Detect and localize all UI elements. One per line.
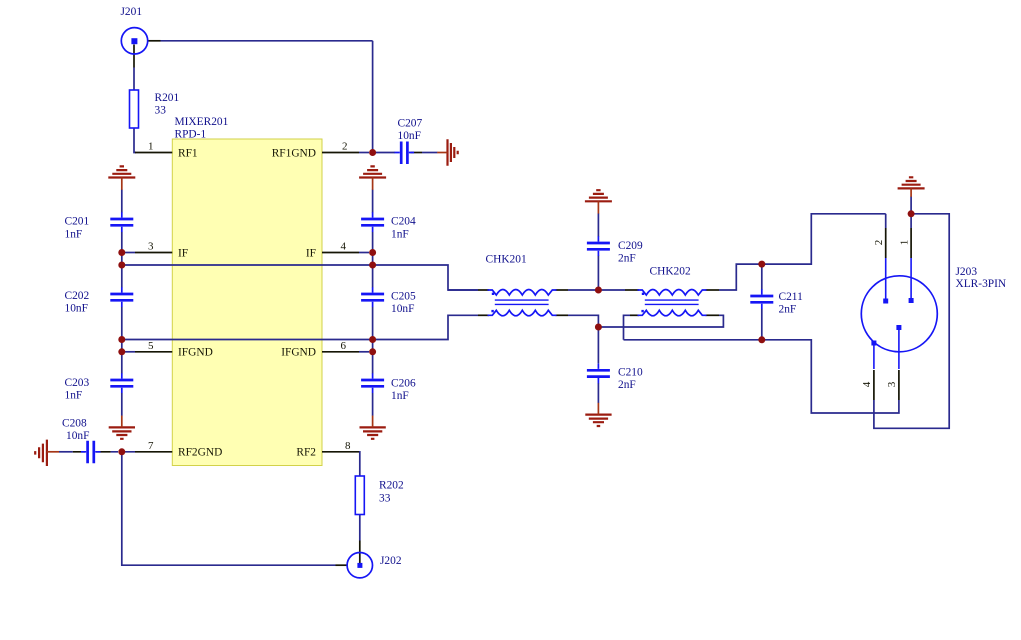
wire C211 bottom lead — [761, 309, 763, 340]
pin 5 of MIXER201 — [135, 351, 172, 353]
svg-text:10nF: 10nF — [66, 430, 89, 442]
wire top corner down to pin2 node — [372, 41, 374, 150]
ground below C206 — [360, 427, 386, 438]
junction node C211 bottom — [758, 336, 765, 343]
junction node pin7 — [118, 448, 125, 455]
ground above XLR pin1 — [898, 177, 925, 188]
junction node IF bus right — [369, 262, 376, 269]
pin segment CHK201 top right — [556, 289, 569, 291]
wire CHK202 top right up to C211 top run — [719, 214, 886, 290]
capacitor C203 — [110, 380, 133, 386]
svg-text:IFGND: IFGND — [178, 347, 213, 359]
junction node IFGND bus left — [118, 336, 125, 343]
pad XLR pin4 — [871, 341, 876, 346]
svg-text:MIXER201: MIXER201 — [175, 116, 229, 128]
pin stub J201 right — [147, 40, 160, 42]
svg-text:RF1: RF1 — [178, 147, 198, 159]
svg-text:RF2GND: RF2GND — [178, 447, 222, 459]
svg-text:1: 1 — [148, 140, 154, 152]
svg-text:1nF: 1nF — [65, 389, 83, 401]
wire pin4 segment — [359, 252, 369, 254]
wire C209 upper lead — [597, 213, 599, 236]
pin 1 of MIXER201 — [135, 152, 172, 154]
wire right chain C204 to C205 — [372, 232, 374, 288]
pin 3 of MIXER201 — [135, 252, 172, 254]
resistor R201 — [130, 90, 139, 128]
wire left chain C203 to bottom ground — [121, 393, 123, 416]
pin segment CHK202 bottom right — [706, 314, 720, 316]
pin segment C207 right — [410, 152, 422, 154]
svg-text:2nF: 2nF — [618, 379, 636, 391]
junction node C209 — [595, 287, 602, 294]
wire CHK201 bottom right to C210 node — [568, 315, 598, 327]
svg-text:7: 7 — [148, 440, 154, 452]
wire CHK202 bottom left to bottom bus — [624, 315, 631, 340]
wire J201 to top corner — [161, 40, 373, 42]
pin segment CHK201 bottom right — [556, 314, 569, 316]
pin stub J202 top — [359, 541, 361, 564]
svg-text:1nF: 1nF — [65, 228, 83, 240]
capacitor C202 — [110, 294, 133, 300]
svg-text:J203: J203 — [956, 266, 978, 278]
wire C210 to bottom ground stem — [597, 383, 599, 403]
svg-text:33: 33 — [155, 105, 167, 117]
wire C207 to ground stem — [422, 152, 437, 154]
capacitor C211 — [750, 296, 773, 302]
svg-text:RPD-1: RPD-1 — [175, 129, 207, 141]
choke CHK202 — [638, 290, 707, 316]
svg-text:5: 5 — [148, 340, 154, 352]
junction node pin4 — [369, 249, 376, 256]
svg-text:IFGND: IFGND — [281, 347, 316, 359]
pin line XLR pin3 inner — [898, 330, 900, 369]
wire IFGND bus from left node across to CHK201 bottom — [122, 315, 478, 339]
wire gnd to XLR pin1 node — [910, 197, 912, 212]
wire left chain C202 to C203 — [121, 307, 123, 374]
pin stub J201 bottom — [133, 45, 135, 68]
wire CHK201 top right to C209 node — [568, 289, 598, 291]
pin segment XLR pin1 — [910, 228, 912, 258]
wire XLR pin1 node right loop down to pin4 — [874, 214, 949, 428]
wire pin3 stub from node — [122, 252, 135, 254]
wire R202 to J202 — [359, 515, 361, 541]
wire pin2 segment — [359, 152, 369, 154]
resistor R202 — [355, 476, 364, 515]
ground below C210 — [585, 415, 611, 426]
svg-text:3: 3 — [886, 381, 898, 387]
svg-text:C207: C207 — [398, 117, 423, 129]
wire C209 lower lead to node — [597, 256, 599, 288]
pin segment CHK202 top right — [706, 289, 720, 291]
svg-text:1nF: 1nF — [391, 390, 409, 402]
svg-text:C209: C209 — [618, 240, 643, 252]
svg-text:R202: R202 — [379, 479, 404, 491]
capacitor C210 — [587, 370, 610, 376]
wire R201 bottom lead and corner to pin1 — [134, 128, 136, 153]
pin 8 of MIXER201 — [322, 451, 359, 453]
svg-text:2: 2 — [342, 140, 348, 152]
svg-text:2nF: 2nF — [618, 253, 636, 265]
junction node pin2 — [369, 149, 376, 156]
svg-text:4: 4 — [861, 381, 873, 387]
pin segment XLR pin3 — [898, 370, 900, 400]
wire loop CHK202 bottom right back to C210 node — [598, 315, 723, 327]
svg-text:4: 4 — [341, 240, 347, 252]
pin line XLR pin4 inner — [873, 346, 875, 370]
pin line XLR pin2 inner — [885, 258, 887, 299]
ground right of C207 — [448, 139, 458, 166]
svg-text:C202: C202 — [65, 290, 90, 302]
junction node XLR pin1 — [908, 210, 915, 217]
svg-text:C204: C204 — [391, 216, 416, 228]
svg-text:C208: C208 — [62, 417, 87, 429]
wire right chain gnd to C204 — [372, 190, 374, 213]
svg-text:C210: C210 — [618, 367, 643, 379]
pin stub J202 left — [336, 564, 348, 566]
pin segment CHK202 bottom left — [630, 314, 639, 316]
pin segment CHK202 top left — [625, 289, 639, 291]
pin line XLR pin1 inner — [910, 258, 912, 299]
pin segment XLR pin4 — [873, 370, 875, 400]
pin segment CHK201 top left — [478, 289, 489, 291]
wire XLR pin2 drop — [885, 214, 887, 228]
svg-text:2nF: 2nF — [779, 304, 797, 316]
capacitor C201 — [110, 219, 133, 225]
svg-text:IF: IF — [306, 247, 316, 259]
wire IF bus from left node across to CHK201 — [122, 265, 478, 290]
pad XLR pin1 — [909, 298, 914, 303]
svg-text:XLR-3PIN: XLR-3PIN — [956, 278, 1007, 290]
svg-text:33: 33 — [379, 492, 391, 504]
svg-text:1: 1 — [899, 240, 911, 246]
svg-text:C201: C201 — [65, 216, 90, 228]
svg-text:RF2: RF2 — [296, 447, 316, 459]
pin segment XLR pin2 — [885, 228, 887, 258]
ground above C209 — [585, 190, 612, 201]
wire C211 top lead — [761, 264, 763, 290]
svg-text:1nF: 1nF — [391, 228, 409, 240]
wire right chain C205 to C206 — [372, 307, 374, 374]
wire ground stem to C208 — [59, 451, 73, 453]
pin segments C208 — [73, 451, 111, 453]
ground above C201 — [108, 166, 135, 177]
svg-text:C203: C203 — [65, 377, 90, 389]
mixer U MIXER201 body — [172, 139, 322, 466]
connector J202 — [347, 553, 372, 578]
svg-text:CHK201: CHK201 — [486, 253, 527, 265]
wire right chain C206 to bottom ground — [372, 393, 374, 416]
wire pin6 segment — [359, 351, 369, 353]
junction node pin3 — [118, 249, 125, 256]
junction node C210 — [595, 324, 602, 331]
choke CHK201 — [488, 290, 557, 316]
wire pin7 node down and across to J202 — [122, 452, 336, 565]
svg-text:J201: J201 — [121, 6, 143, 18]
svg-text:2: 2 — [873, 240, 885, 246]
capacitor C204 — [361, 219, 384, 225]
pin segment CHK201 bottom left — [478, 314, 489, 316]
wire bottom bus to C211 and XLR pin3 — [624, 340, 899, 413]
svg-text:6: 6 — [341, 340, 347, 352]
junction node pin6 — [369, 348, 376, 355]
capacitor C209 — [587, 243, 610, 249]
svg-text:CHK202: CHK202 — [650, 266, 691, 278]
svg-text:C211: C211 — [779, 291, 804, 303]
junction node pin5 — [118, 348, 125, 355]
wire pin8 corner down to R202 — [358, 452, 361, 476]
connector J203 XLR — [861, 276, 937, 352]
pin 4 of MIXER201 — [322, 252, 359, 254]
svg-text:RF1GND: RF1GND — [272, 147, 316, 159]
wire C210 node down to C210 — [597, 327, 599, 364]
ground above C204 — [359, 166, 386, 177]
wire IF into CHK201 left — [448, 289, 478, 291]
wire pin5 stub from node — [122, 351, 135, 353]
junction node IFGND bus right — [369, 336, 376, 343]
svg-text:10nF: 10nF — [398, 130, 421, 142]
wire left chain C201 to C202 — [121, 232, 123, 288]
pad XLR pin2 — [883, 299, 888, 304]
wire pin2 node to C207 — [375, 152, 395, 154]
svg-text:C206: C206 — [391, 378, 416, 390]
capacitor C207 — [401, 142, 407, 165]
pad XLR pin3 — [896, 325, 901, 330]
wire XLR pin1 drop — [910, 216, 912, 228]
ground left of C208 — [35, 440, 47, 466]
pin 2 of MIXER201 — [322, 152, 359, 154]
svg-text:8: 8 — [345, 440, 351, 452]
svg-text:C205: C205 — [391, 291, 416, 303]
wire pin7 stub from node — [111, 451, 135, 453]
junction node C211 top — [758, 261, 765, 268]
svg-text:10nF: 10nF — [391, 303, 414, 315]
ground below C203 — [109, 427, 135, 438]
svg-text:3: 3 — [148, 240, 154, 252]
capacitor C208 — [88, 441, 94, 464]
capacitor C206 — [361, 380, 384, 386]
junction node IF bus left — [118, 262, 125, 269]
pin 6 of MIXER201 — [322, 351, 359, 353]
wire R201 top lead — [133, 68, 135, 91]
wire left chain gnd to C201 — [121, 190, 123, 213]
capacitor C205 — [361, 294, 384, 300]
svg-text:J202: J202 — [380, 555, 402, 567]
svg-text:IF: IF — [178, 247, 188, 259]
pin 7 of MIXER201 — [135, 451, 172, 453]
svg-text:10nF: 10nF — [65, 303, 88, 315]
wire C209 node to CHK202 left — [598, 289, 625, 291]
connector J201 — [121, 28, 147, 54]
svg-text:R201: R201 — [155, 92, 180, 104]
